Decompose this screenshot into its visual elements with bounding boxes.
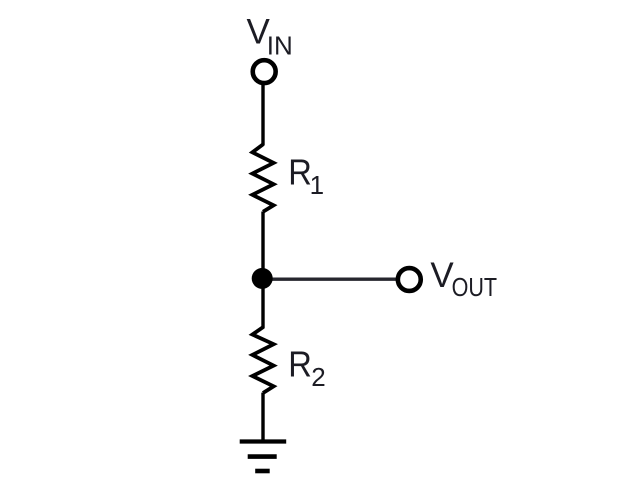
wire node to R2 xyxy=(261,285,264,329)
ground xyxy=(240,442,287,472)
wire VIN to R1 xyxy=(261,85,264,146)
wire node to VOUT xyxy=(262,278,396,281)
svg-text:R: R xyxy=(288,152,312,193)
label R1 xyxy=(288,152,324,200)
label R2 xyxy=(288,344,325,392)
svg-text:1: 1 xyxy=(310,170,324,200)
wire R2 to ground xyxy=(261,393,264,442)
resistor R2 xyxy=(252,327,273,393)
wire R1 to node xyxy=(261,212,264,273)
terminal VOUT xyxy=(398,268,421,291)
node junction xyxy=(252,268,273,289)
svg-text:OUT: OUT xyxy=(452,272,498,302)
label VOUT xyxy=(430,256,497,302)
svg-text:R: R xyxy=(288,344,312,385)
resistor R1 xyxy=(252,144,273,211)
label VIN xyxy=(247,13,293,61)
svg-text:IN: IN xyxy=(267,31,293,61)
svg-text:2: 2 xyxy=(311,362,325,392)
terminal VIN xyxy=(253,60,276,83)
